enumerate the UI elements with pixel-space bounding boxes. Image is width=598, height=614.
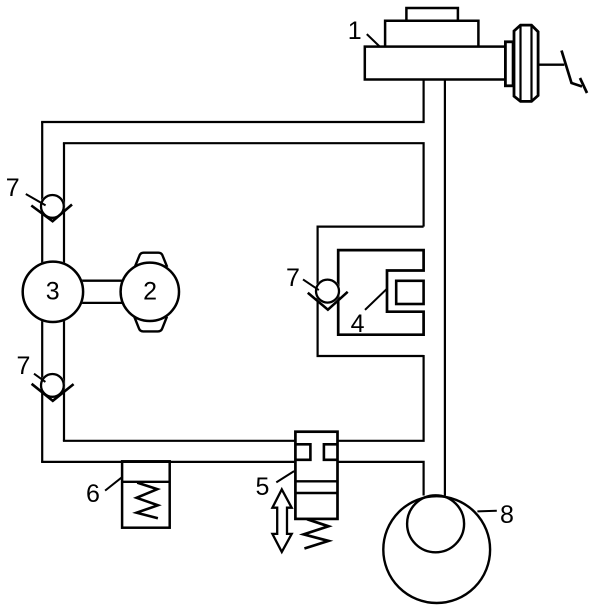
push rod [538,63,564,65]
wire top pipe inner [63,143,424,226]
motor tab top [135,253,167,267]
valve 5 motion arrow [272,489,291,552]
solenoid core 4 [338,250,423,335]
brake pedal arm [562,51,583,87]
booster drum [514,25,538,101]
valve 5 right port [324,444,338,460]
label 4 leader [365,289,387,310]
pump-motor shaft [80,281,123,303]
booster drum inner line left [519,25,521,101]
valve 5 body [295,432,337,519]
wheel cylinder 8 piston circle [407,495,464,552]
master cylinder 1 body [365,47,506,80]
svg-text:1: 1 [348,17,362,45]
wire left pipe inner [63,143,65,441]
svg-text:4: 4 [351,310,365,338]
svg-text:7: 7 [16,352,30,380]
check valve 7 middle circle [315,278,341,304]
pump 3 circle [21,260,84,323]
label 8 leader [477,510,496,513]
wire right pipe outer [444,80,446,496]
valve 5 spring [304,519,329,548]
valve 5 left port [295,444,310,460]
check valve 7 middle seat [308,292,348,310]
motor tab bottom [134,317,167,332]
svg-text:6: 6 [86,480,100,508]
label 7 bottom-left leader [34,374,45,382]
booster plate [505,42,513,86]
booster drum inner line right [530,25,532,101]
motor 2 circle [121,263,179,321]
svg-text:2: 2 [143,277,157,305]
check valve 7 bottom-left seat [32,384,74,401]
wire bypass loop outer left [317,227,424,356]
label 7 top-left leader [26,194,46,205]
svg-text:7: 7 [6,174,20,202]
wheel cylinder 8 outer circle [383,496,490,603]
svg-text:8: 8 [500,501,514,529]
valve 5 divider lower [295,492,337,494]
solenoid armature 4 [396,281,423,304]
wire top pipe outer [41,80,424,122]
accumulator 6 divider [122,481,170,483]
svg-text:5: 5 [255,473,269,501]
label 1 leader [367,34,380,46]
master cylinder 1 reservoir mid [385,21,478,47]
check valve 7 bottom-left circle [40,373,65,398]
check valve 7 top-left seat [31,205,72,222]
accumulator 6 body [122,461,170,527]
valve 5 divider upper [295,480,337,482]
svg-text:3: 3 [46,277,60,305]
wire left pipe outer [41,122,43,462]
check valve 7 top-left circle [40,194,65,219]
label 7 middle leader [303,279,319,290]
accumulator 6 spring [137,483,158,519]
label 5 leader [276,471,294,482]
brake pedal pad [580,78,587,93]
wire bottom pipe outer [41,462,424,496]
master cylinder 1 reservoir cap [406,8,458,21]
svg-text:7: 7 [286,264,300,292]
wire bottom pipe inner [63,355,424,441]
label 6 leader [105,477,122,491]
